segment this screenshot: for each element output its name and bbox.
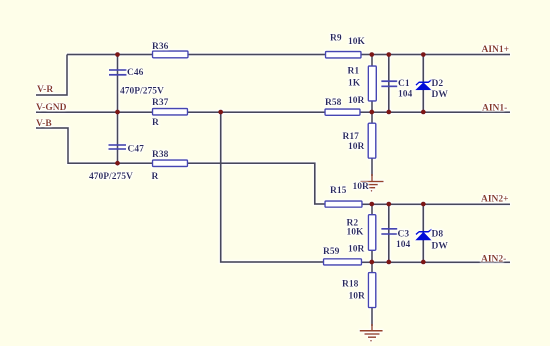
diode D2 (415, 80, 432, 90)
svg-text:AIN2-: AIN2- (481, 254, 506, 264)
svg-text:C3: C3 (398, 229, 410, 239)
svg-text:R9: R9 (330, 34, 342, 44)
wire C3 column (388, 204, 390, 262)
resistor R17 (368, 123, 376, 158)
capacitor C47 (109, 145, 127, 149)
resistor R9 (326, 52, 362, 59)
svg-text:AIN2+: AIN2+ (481, 195, 509, 205)
resistor R15 (325, 201, 362, 207)
wire R2 column (371, 204, 373, 262)
capacitor C1 (381, 81, 397, 86)
junction AIN1- / C1 (386, 110, 391, 115)
wire D8 column (422, 204, 424, 262)
resistor R36 (153, 51, 189, 58)
svg-text:10R: 10R (353, 182, 370, 192)
svg-text:R15: R15 (330, 186, 347, 196)
svg-text:10K: 10K (347, 228, 365, 238)
svg-text:R59: R59 (323, 247, 340, 257)
junction net V-R / C46 (115, 52, 120, 57)
junction AIN1- / D2 (421, 110, 426, 115)
svg-text:R58: R58 (325, 98, 342, 108)
svg-text:D2: D2 (432, 79, 444, 89)
junction AIN2+ / C3 (386, 202, 391, 207)
resistor R18 (368, 273, 375, 308)
junction V-GND / C46 C47 (115, 110, 120, 115)
junction V-B / C47 (115, 161, 120, 166)
wire net V-GND rail y=112 (36, 111, 510, 113)
svg-text:AIN1+: AIN1+ (482, 45, 510, 55)
ground for R17 (361, 174, 384, 192)
resistor R2 (368, 215, 375, 251)
svg-text:C46: C46 (127, 68, 144, 78)
svg-text:AIN1-: AIN1- (482, 104, 507, 114)
svg-text:R37: R37 (152, 98, 169, 108)
junction net top rail / R1 (369, 52, 374, 57)
junction net top rail / D2 (421, 52, 426, 57)
svg-text:R: R (152, 172, 159, 182)
wire R1 column (371, 55, 373, 113)
wire R17 column to ground (371, 112, 373, 176)
wire C1 column (388, 55, 390, 113)
junction AIN2+ / R2 (369, 202, 374, 207)
svg-text:104: 104 (396, 240, 411, 250)
svg-text:470P/275V: 470P/275V (120, 87, 164, 97)
svg-text:R36: R36 (152, 42, 169, 52)
junction AIN1- / R1 R17 (369, 110, 374, 115)
svg-text:1K: 1K (348, 78, 361, 88)
junction AIN2- / R2 R18 (369, 260, 374, 265)
junction AIN2- / D8 (421, 260, 426, 265)
wire R38 output to R15 (188, 163, 325, 204)
wire R37 output down to R59 (221, 112, 324, 262)
resistor R59 (324, 259, 362, 265)
svg-text:10R: 10R (349, 291, 366, 301)
wire R18 column to ground (371, 262, 373, 326)
svg-text:C1: C1 (398, 79, 410, 89)
svg-text:V-GND: V-GND (36, 103, 67, 113)
svg-text:10K: 10K (348, 37, 366, 47)
wire V-R stub (36, 55, 67, 96)
svg-text:V-B: V-B (36, 119, 52, 129)
svg-text:10R: 10R (348, 142, 365, 152)
junction R37 output (218, 110, 223, 115)
svg-text:104: 104 (398, 90, 413, 100)
wire V-B stub (36, 128, 153, 163)
svg-text:R1: R1 (348, 67, 360, 77)
resistor R37 (153, 109, 188, 116)
svg-text:R17: R17 (343, 132, 360, 142)
svg-text:R18: R18 (342, 280, 359, 290)
junction net top rail / C1 (386, 52, 391, 57)
svg-text:R: R (152, 118, 159, 128)
svg-text:V-R: V-R (37, 85, 53, 95)
svg-text:470P/275V: 470P/275V (89, 172, 133, 182)
wire D2 column (422, 55, 424, 113)
junction AIN2- / C3 (386, 260, 391, 265)
ground for R18 (360, 324, 383, 342)
wire net V-R top rail y=54.5 (67, 54, 510, 56)
svg-text:R38: R38 (152, 150, 169, 160)
svg-text:C47: C47 (128, 145, 145, 155)
wire C46 column (117, 55, 119, 113)
svg-text:DW: DW (432, 242, 449, 252)
svg-text:D8: D8 (432, 229, 444, 239)
capacitor C3 (381, 229, 397, 234)
wire C47 column (117, 112, 119, 163)
svg-text:10R: 10R (348, 96, 365, 106)
resistor R38 (153, 160, 188, 167)
wire net AIN2+ y=204 (362, 203, 510, 205)
svg-text:10R: 10R (348, 245, 365, 255)
resistor R1 (368, 66, 376, 101)
diode D8 (415, 229, 432, 240)
capacitor C46 (109, 70, 127, 75)
wire net AIN2- y=262 (362, 261, 510, 263)
svg-text:DW: DW (432, 90, 449, 100)
resistor R58 (325, 109, 360, 115)
junction AIN2+ / D8 (421, 202, 426, 207)
